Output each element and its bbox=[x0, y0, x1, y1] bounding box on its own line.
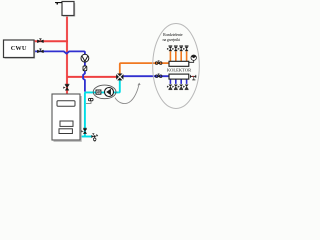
CWU circulation pump bbox=[81, 54, 89, 62]
wire blue vertical with jog over red line bbox=[83, 71, 85, 92]
main circulation pump bbox=[105, 88, 114, 97]
pump group ellipse bbox=[93, 85, 116, 99]
wire cyan from mixing valve down bbox=[119, 80, 120, 92]
boiler bottom panel bbox=[59, 129, 72, 134]
CWU tank box shadow bbox=[5, 42, 35, 59]
expansion vessel shadow bbox=[63, 3, 75, 16]
svg-text:CWU: CWU bbox=[11, 45, 27, 52]
wire red CWU supply branch bbox=[34, 40, 68, 42]
wire red boiler supply to mixing valve bbox=[67, 76, 116, 78]
annotation arrow curve bbox=[115, 85, 139, 104]
safety valve above boiler bbox=[64, 84, 70, 90]
boiler drain valve bbox=[92, 134, 98, 141]
boiler middle panel bbox=[60, 121, 73, 126]
wire cyan boiler return horizontal bbox=[85, 92, 119, 136]
wire red riser from expansion vessel to boiler bbox=[66, 16, 68, 95]
svg-text:na grzejniki: na grzejniki bbox=[163, 37, 182, 42]
bottom manifold end drain bbox=[190, 75, 196, 80]
air vent link bbox=[189, 60, 194, 62]
wire cyan boiler drain bottom bbox=[80, 136, 91, 138]
orange stubs to top manifold bbox=[170, 51, 186, 61]
valve on blue manifold line bbox=[155, 74, 162, 78]
radiator valves top row bbox=[167, 46, 188, 51]
top manifold supply collector bbox=[169, 61, 189, 66]
boiler shadow bbox=[54, 96, 82, 141]
valve on red CWU line bbox=[37, 39, 43, 43]
expansion vessel bbox=[62, 2, 74, 16]
CWU tank box bbox=[4, 40, 35, 58]
blue stubs from bottom manifold bbox=[170, 79, 186, 84]
bottom manifold return collector bbox=[169, 74, 189, 79]
4-way mixing valve bbox=[116, 74, 123, 81]
check valve on blue line bbox=[83, 66, 87, 71]
valve on blue CWU line bbox=[37, 49, 43, 53]
pump group control box bbox=[96, 90, 101, 94]
vessel overflow pipe bbox=[55, 2, 62, 5]
wire blue CWU return with dip under riser bbox=[34, 51, 85, 54]
wire orange supply from mixing valve to manifold bbox=[120, 63, 169, 74]
radiator valves bottom row bbox=[167, 85, 188, 90]
svg-text:KOLEKTOR: KOLEKTOR bbox=[167, 68, 191, 73]
valve on orange manifold line bbox=[155, 61, 162, 65]
valve on cyan return line bbox=[82, 128, 87, 133]
thermometer manometer gauges bbox=[86, 101, 91, 103]
boiler top panel bbox=[57, 101, 75, 107]
boiler body bbox=[52, 94, 80, 140]
wire blue return manifold line bbox=[123, 75, 169, 77]
big ellipse radiator zone bubble bbox=[153, 24, 200, 109]
wire blue vertical below pump bbox=[84, 62, 86, 66]
air vent on manifold bbox=[191, 55, 196, 60]
